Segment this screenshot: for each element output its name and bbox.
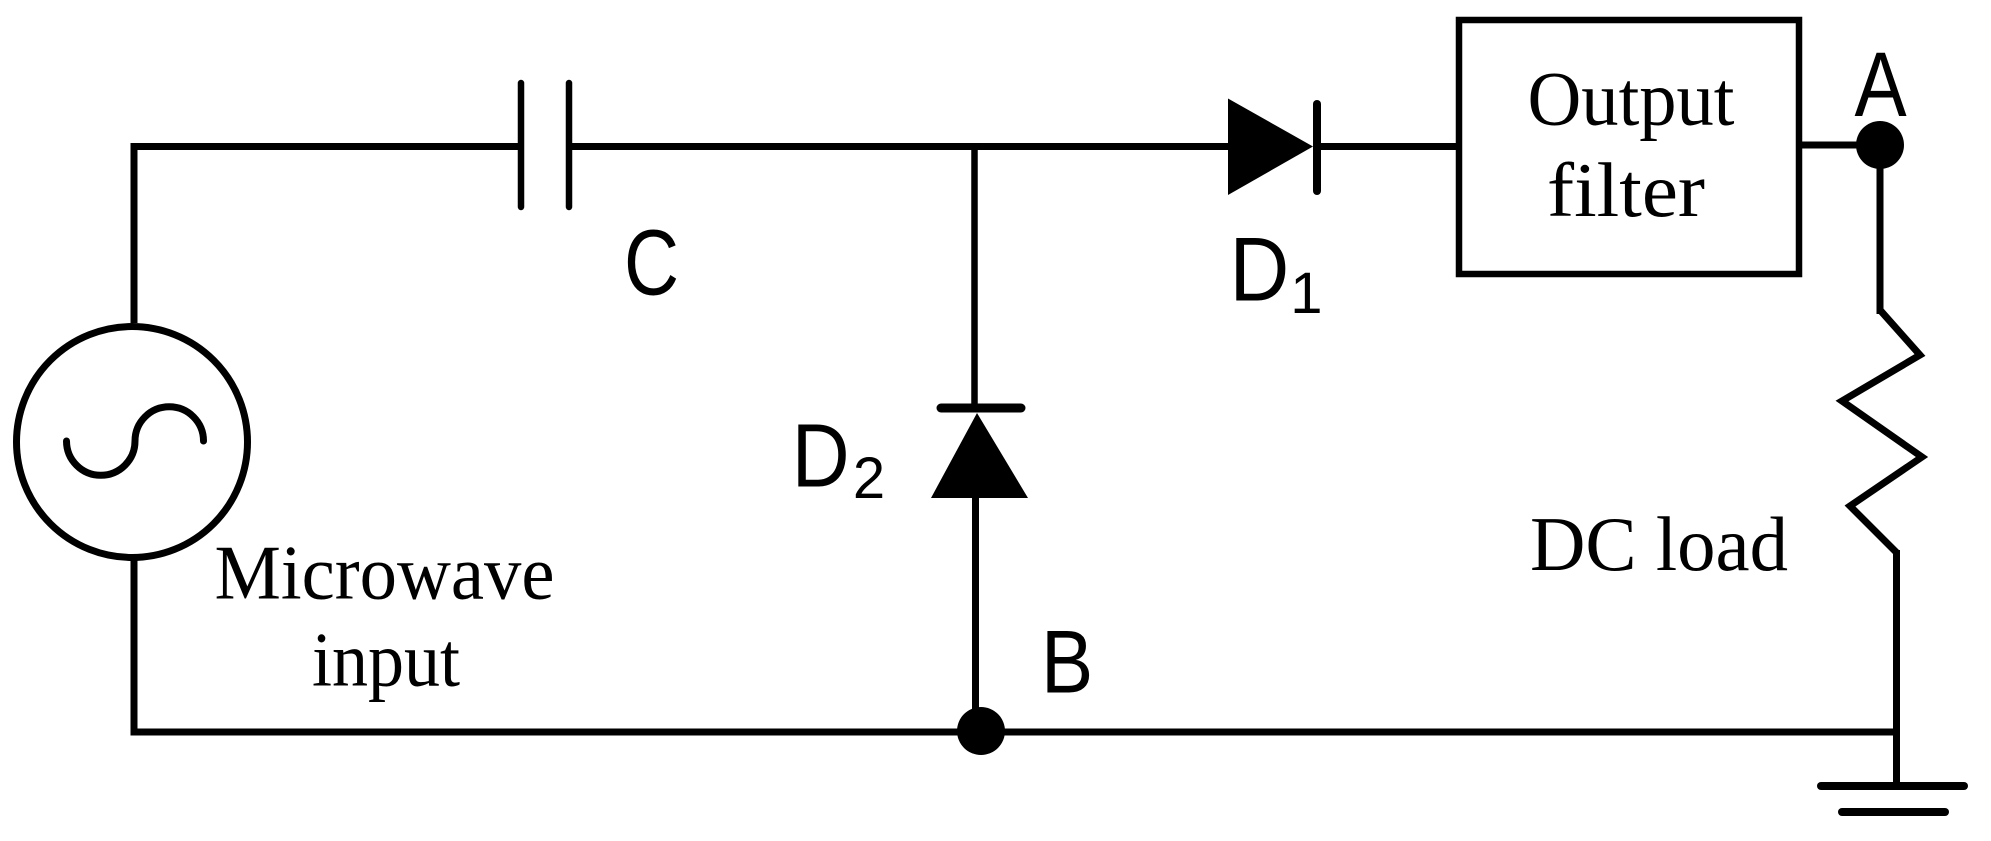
wire: diode D2 anode down to node B [972, 495, 979, 731]
svg-text:1: 1 [1290, 261, 1322, 326]
label D1 [1230, 219, 1323, 326]
node A [1856, 121, 1904, 169]
label A [1855, 34, 1907, 136]
wire: resistor bottom to ground [1893, 550, 1900, 786]
svg-text:DC load: DC load [1530, 501, 1788, 587]
svg-text:input: input [312, 617, 460, 703]
svg-text:Microwave: Microwave [215, 530, 555, 616]
resistor DC load [1842, 310, 1922, 553]
wire: source bottom to bottom rail [131, 558, 138, 732]
wire: output filter to node A [1802, 142, 1860, 149]
wire: node A down to resistor [1877, 145, 1884, 314]
source: microwave input AC source [17, 327, 248, 558]
wire: bottom rail [131, 729, 1897, 736]
svg-text:D: D [792, 406, 850, 506]
label B [1041, 612, 1093, 712]
label C [624, 211, 679, 315]
diode D1 [1228, 99, 1317, 196]
svg-text:2: 2 [853, 446, 885, 511]
wire: diode D1 cathode to output filter box [1321, 143, 1456, 150]
wire: top rail junction down to diode D2 cathode [971, 147, 978, 409]
svg-text:C: C [624, 211, 679, 315]
wire: capacitor right plate to diode D1 anode [572, 143, 1228, 150]
block: output filter box [1459, 20, 1799, 274]
svg-text:B: B [1041, 612, 1093, 712]
ground [1821, 786, 1964, 812]
svg-text:Output: Output [1528, 56, 1735, 142]
diode D2 [931, 408, 1028, 498]
label D2 [792, 406, 885, 511]
svg-text:filter: filter [1547, 147, 1705, 233]
capacitor C plates [521, 83, 569, 207]
svg-text:A: A [1855, 34, 1907, 136]
label Microwave input [215, 530, 555, 703]
wire: source top to capacitor left plate [134, 147, 518, 324]
node B [957, 707, 1005, 755]
text Output filter [1528, 56, 1735, 234]
svg-text:D: D [1230, 219, 1290, 320]
